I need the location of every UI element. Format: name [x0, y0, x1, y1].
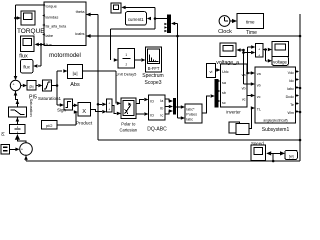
svg-text:+: +: [21, 147, 23, 151]
svg-text:angle(electricalf): angle(electricalf): [263, 118, 287, 122]
svg-text:vb: vb: [257, 84, 261, 88]
goto tag voltage: [272, 56, 288, 65]
goto tag current1: [125, 12, 146, 25]
wire speed feedback bottom: [26, 160, 300, 162]
svg-text:Clock: Clock: [218, 29, 232, 35]
svg-text:sb: sb: [222, 91, 226, 95]
sum voltage rectangular: [255, 44, 263, 58]
wire iabc into demux: [177, 24, 179, 37]
svg-text:flux: flux: [46, 42, 52, 47]
wire current regulator pulses to demux2: [202, 96, 210, 113]
svg-text:Te: Te: [290, 103, 294, 107]
wire right trunk: [299, 14, 301, 161]
block pi/2 constant: [42, 121, 58, 130]
svg-text:voltage: voltage: [273, 60, 287, 65]
Subsystem1 output stubs: [296, 71, 299, 73]
wire pi/2 to Product: [57, 124, 76, 126]
svg-text:TORQUE: TORQUE: [17, 28, 45, 35]
wire Abs output to Polar-to-Cartesian input 1: [83, 70, 117, 72]
svg-text:torque: torque: [46, 3, 58, 8]
svg-text:[w]: [w]: [289, 154, 294, 158]
wire Product output to angle sum: [91, 109, 103, 111]
svg-text:Udc: Udc: [222, 70, 229, 74]
svg-text:flux: flux: [23, 65, 30, 70]
svg-text:Saturation: Saturation: [29, 99, 34, 117]
wire sum2 to scope and voltage tag: [263, 49, 267, 51]
wire angle sum to Polar-to-Cartesian input 2: [112, 106, 117, 114]
svg-text:+: +: [108, 101, 110, 105]
svg-text:theta: theta: [76, 9, 86, 14]
scope voltage_a: [220, 43, 236, 57]
svg-text:ID: ID: [150, 99, 154, 103]
sum torque error: [10, 80, 20, 90]
svg-text:Saturation1: Saturation1: [38, 96, 62, 101]
svg-text:1: 1: [125, 53, 127, 57]
svg-text:Pulses: Pulses: [186, 113, 197, 117]
svg-text:motormodel: motormodel: [49, 53, 81, 59]
svg-text:DQ-ABC: DQ-ABC: [147, 127, 167, 133]
svg-text:Wm: Wm: [287, 111, 294, 115]
wire inverter vc to Subsystem1: [247, 95, 251, 97]
block Spectrum Scope3: [146, 47, 162, 72]
svg-text:PI: PI: [29, 84, 33, 89]
block DQ-ABC: [149, 95, 166, 120]
svg-text:Ib: Ib: [160, 106, 163, 110]
block Subsystem1 motor model: [255, 67, 296, 123]
svg-text:voltage_a: voltage_a: [216, 60, 239, 66]
block load torque step: [229, 122, 239, 133]
svg-text:Spectrum: Spectrum: [142, 73, 163, 79]
block Saturation vertical: [8, 107, 26, 117]
wire demux phase-a to Unit Delay5: [111, 28, 156, 30]
block Polar to Cartesian: [121, 98, 136, 119]
svg-text:B-FFT: B-FFT: [148, 66, 160, 71]
svg-text:current1: current1: [128, 17, 144, 22]
wires Polar-to-Cartesian to DQ-ABC: [136, 100, 144, 104]
svg-text:Iabc: Iabc: [186, 118, 193, 122]
wire speed sum up to PI integrator: [17, 135, 26, 143]
wire Saturation to PI integrator: [16, 117, 18, 124]
svg-text:lamdas: lamdas: [46, 14, 59, 19]
wire va tap riser: [247, 47, 249, 73]
clock: [219, 16, 230, 27]
svg-text:Vdc: Vdc: [288, 71, 295, 75]
svg-text:sc: sc: [222, 101, 226, 105]
wire mux to current regulator: [176, 106, 182, 108]
wire iabc horizontal to motormodel icabs: [86, 35, 301, 37]
mux reference currents: [173, 98, 176, 114]
svg-text:vc: vc: [242, 97, 246, 101]
block time To-Workspace: [237, 14, 264, 29]
svg-text:X: X: [82, 109, 86, 115]
wire flux port to flux scope and flux goto: [39, 43, 45, 45]
scope flux: [20, 36, 34, 51]
svg-text:Time: Time: [246, 30, 257, 36]
block Unit Delay5: [118, 49, 135, 69]
wire theta / wm vertical trunk: [86, 14, 99, 16]
svg-text:+: +: [12, 83, 14, 87]
svg-text:Iabc: Iabc: [287, 87, 294, 91]
svg-text:Product: Product: [76, 121, 93, 127]
svg-text:iabe: iabe: [46, 33, 54, 38]
wire tap to voltage_a scope: [240, 49, 244, 51]
motormodel left port stubs: [42, 4, 45, 7]
demux pulses: [215, 79, 218, 107]
block Abs: [68, 65, 83, 79]
svg-text:Subsystem1: Subsystem1: [262, 127, 290, 133]
sum angle rectangular: [107, 99, 113, 112]
block current regulator Iabc* Pulses: [185, 104, 202, 123]
svg-text:Sign: Sign: [57, 107, 66, 112]
demux current: [167, 15, 171, 33]
svg-text:TL: TL: [257, 108, 261, 112]
wire Sign to Product: [73, 104, 75, 106]
svg-text:time: time: [246, 20, 255, 25]
wires demux2 to inverter gates: [217, 80, 220, 82]
svg-text:+: +: [258, 48, 260, 52]
svg-text:fai_alfa_beta: fai_alfa_beta: [46, 25, 67, 29]
wire iabc down to current regulator: [177, 36, 179, 118]
wire Unit Delay5 to Spectrum Scope3: [135, 59, 142, 61]
block inverter: [221, 64, 248, 107]
svg-text:Idc: Idc: [289, 79, 294, 83]
wire step to TL input: [249, 108, 252, 129]
wire torque output to TORQUE scope and torque sum: [16, 4, 45, 6]
block vi dc source: [207, 64, 216, 78]
block Saturation1: [43, 80, 52, 91]
wire clock to time: [230, 20, 232, 22]
wire inverter vb to Subsystem1: [244, 83, 252, 85]
wire demux outputs to scope and current1: [155, 18, 167, 20]
block Sign: [64, 99, 73, 110]
svg-text:PI: PI: [1, 132, 6, 136]
svg-text:vi: vi: [210, 69, 213, 74]
scope voltage top right: [272, 42, 288, 57]
speed scope and tag wiring: [272, 160, 275, 163]
svg-text:Polar to: Polar to: [121, 121, 136, 126]
block motormodel: [44, 2, 86, 46]
svg-text:+: +: [258, 53, 260, 57]
scope TORQUE: [21, 11, 35, 25]
goto tag flux: [21, 60, 34, 74]
svg-text:vb: vb: [242, 87, 246, 91]
svg-text:vc: vc: [257, 95, 261, 99]
wire inverter va to Subsystem1: [247, 72, 251, 74]
svg-text:Dcdc: Dcdc: [286, 95, 295, 99]
block speed reference source: [1, 145, 10, 155]
block Product: [78, 103, 91, 117]
svg-text:Scope3: Scope3: [145, 80, 162, 86]
goto tag w speed: [285, 150, 297, 159]
svg-text:Unit Delay5: Unit Delay5: [116, 71, 137, 76]
svg-text:Ic: Ic: [160, 114, 163, 118]
svg-text:inverter: inverter: [226, 109, 241, 114]
svg-text:pi/2: pi/2: [46, 123, 53, 128]
sum speed error: [20, 143, 33, 156]
block PI integrator: [10, 124, 25, 133]
block PI torque controller: [27, 81, 36, 91]
svg-text:Cartesian: Cartesian: [120, 127, 138, 132]
wire vb tap riser: [243, 50, 245, 84]
scope current small: [111, 3, 121, 13]
svg-text:icabs: icabs: [75, 31, 84, 36]
svg-text:Abs: Abs: [70, 82, 80, 88]
wire speed chain up to torque sum: [16, 91, 18, 107]
wires DQ-ABC outputs to mux: [165, 99, 170, 101]
svg-text:ID: ID: [150, 113, 154, 117]
svg-text:+: +: [108, 107, 110, 111]
svg-text:|u|: |u|: [72, 71, 77, 77]
svg-text:Iabc*: Iabc*: [186, 108, 195, 112]
wire Saturation1 output branch to Abs and Sign: [52, 85, 58, 87]
svg-text:flux: flux: [19, 54, 28, 60]
